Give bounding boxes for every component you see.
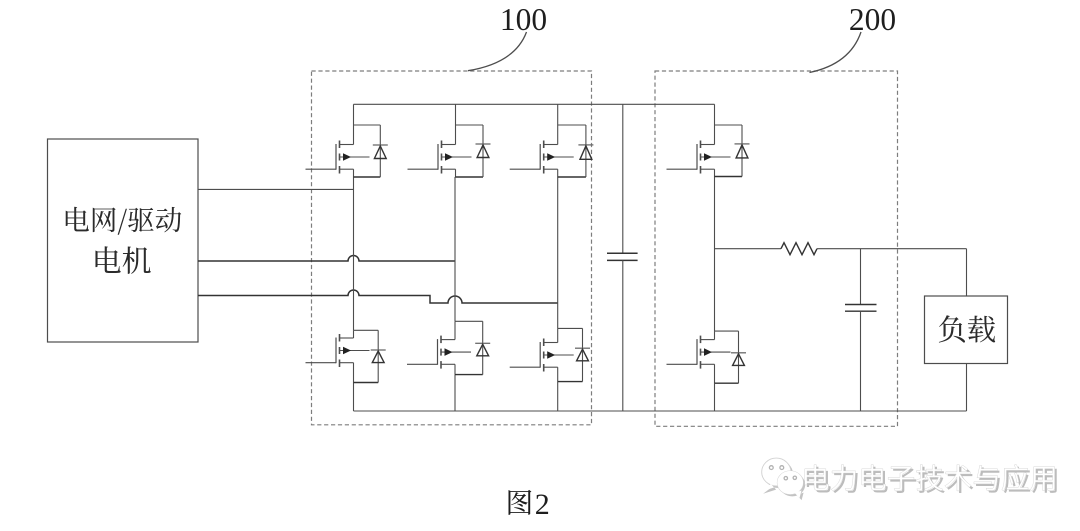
transistor Q1 (MOSFET with body diode A-top)	[306, 125, 388, 177]
filter capacitor C2 top wire	[860, 249, 862, 305]
load box label 负载	[939, 315, 995, 342]
DC-link capacitor C1	[607, 253, 638, 260]
dashed module 200 (DC-DC converter)	[655, 71, 898, 426]
wire: leg B to negative bus	[454, 375, 456, 411]
wire: chopper leg top	[714, 104, 716, 125]
svg-text:200: 200	[849, 2, 896, 37]
wire: output node down to load box	[966, 249, 968, 296]
wire: negative DC bus	[354, 410, 967, 412]
leader line for 100	[468, 32, 527, 71]
svg-text:100: 100	[500, 2, 547, 37]
wire: leg A top from positive bus	[353, 104, 355, 125]
DC-link capacitor C1 branch bottom wire	[622, 260, 624, 411]
transistor Q3 (MOSFET with body diode C-top)	[510, 125, 594, 177]
wire: leg C top from positive bus	[557, 104, 559, 125]
wire: leg B top from positive bus	[455, 104, 457, 125]
wire: leg C midsection	[557, 177, 559, 328]
wire: leg A to negative bus	[353, 383, 355, 412]
transistor Q5 (MOSFET with body diode B-bot)	[407, 321, 490, 374]
grid box label 电网/驱动 电机	[66, 207, 182, 274]
wire: chopper leg midsection	[714, 177, 716, 332]
wire: leg C to negative bus	[557, 382, 559, 411]
wire: negative bus up to load box	[966, 364, 968, 412]
grid/drive-motor source box	[48, 139, 199, 342]
wire: phase A from grid box	[198, 188, 354, 190]
wire: chopper leg to negative bus	[714, 383, 716, 411]
svg-text:2: 2	[535, 488, 550, 521]
dashed module 100 (AC-DC converter)	[312, 71, 592, 425]
load box	[925, 296, 1008, 364]
transistor Q2 (MOSFET with body diode B-top)	[408, 125, 491, 177]
wire: leg A midsection	[353, 177, 355, 330]
watermark text 电力电子技术与应用	[805, 464, 1057, 493]
filter capacitor C2 bottom wire	[860, 311, 862, 411]
watermark WeChat logo	[761, 458, 805, 500]
filter capacitor C2	[845, 305, 877, 312]
wire: leg B midsection	[454, 177, 456, 321]
leader line for 200	[810, 32, 862, 73]
DC-link capacitor C1 branch top wire	[622, 104, 624, 253]
transistor Q8 (MOSFET with body diode chopper-bot)	[667, 331, 747, 383]
wire: positive DC bus	[354, 103, 715, 105]
wire: phase B from grid box (with hop over leg A)	[198, 256, 455, 261]
transistor Q4 (MOSFET with body diode A-bot)	[306, 330, 386, 382]
caption 图2	[509, 488, 550, 521]
wire: phase C from grid box (hops over legs A and B, with jog)	[198, 290, 558, 303]
wire: resistor to load node	[817, 248, 967, 250]
wire: chopper midpoint to resistor	[715, 248, 782, 250]
transistor Q6 (MOSFET with body diode C-bot)	[510, 328, 590, 381]
transistor Q7 (MOSFET with body diode chopper-top)	[667, 125, 750, 177]
resistor R1 (output filter)	[781, 243, 817, 255]
